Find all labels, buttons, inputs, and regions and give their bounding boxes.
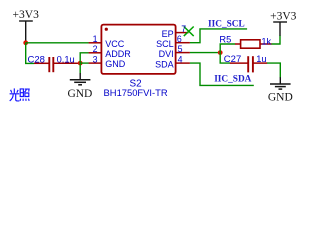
no-connect X on pin 7 bbox=[184, 27, 194, 37]
pin 2 stub bbox=[89, 52, 102, 54]
svg-text:1: 1 bbox=[93, 34, 98, 44]
wire GND net: node B to pin3 bbox=[80, 62, 89, 64]
wire VCC net: node A to pin1 bbox=[26, 42, 89, 44]
label 光照 (light) bbox=[10, 88, 30, 101]
pin 6 stub bbox=[176, 42, 190, 44]
svg-text:IIC_SDA: IIC_SDA bbox=[214, 75, 251, 85]
pin 5 stub bbox=[176, 52, 190, 54]
svg-text:C27: C27 bbox=[224, 54, 241, 65]
op-amp/IC U1 box BH1750 bbox=[101, 25, 175, 74]
svg-text:R5: R5 bbox=[219, 34, 231, 44]
ground GND right bbox=[268, 77, 293, 103]
pin 3 stub bbox=[89, 62, 102, 64]
svg-text:VCC: VCC bbox=[105, 39, 125, 49]
svg-text:IIC_SCL: IIC_SCL bbox=[208, 20, 245, 30]
resistor R5 bbox=[219, 34, 271, 48]
wire node B down to ground bbox=[79, 63, 81, 73]
wire ADDR net: node B up to pin2 bbox=[80, 53, 89, 63]
wire DVI: pin5 to node C bbox=[190, 52, 220, 54]
svg-text:1u: 1u bbox=[256, 54, 266, 64]
wire SCL: pin6 to net label bbox=[190, 29, 247, 43]
wire C27 to ground right bbox=[267, 63, 280, 78]
svg-text:BH1750FVI-TR: BH1750FVI-TR bbox=[104, 87, 168, 98]
capacitor C27 bbox=[224, 54, 267, 72]
power +3V3 right bbox=[270, 11, 297, 36]
svg-text:5: 5 bbox=[178, 44, 183, 54]
svg-text:SDA: SDA bbox=[155, 59, 174, 69]
pin 1 stub bbox=[89, 42, 102, 44]
node A junction dot bbox=[23, 40, 28, 45]
wire node C down to C27 bbox=[220, 53, 230, 64]
capacitor C28 bbox=[28, 55, 79, 73]
svg-text:GND: GND bbox=[105, 59, 126, 69]
svg-text:C28: C28 bbox=[28, 55, 45, 66]
svg-text:SCL: SCL bbox=[156, 39, 174, 49]
pin-1 indicator dot bbox=[105, 28, 108, 31]
wire VCC net: node A down to C28 bbox=[26, 43, 35, 64]
svg-text:EP: EP bbox=[162, 29, 174, 39]
pin 4 stub bbox=[176, 62, 190, 64]
wire SDA: pin4 to net label bbox=[190, 63, 254, 85]
svg-text:+3V3: +3V3 bbox=[270, 11, 297, 23]
wire R5 to +3V3 right bbox=[272, 35, 281, 44]
svg-text:4: 4 bbox=[178, 54, 183, 64]
svg-text:6: 6 bbox=[177, 34, 182, 44]
svg-text:GND: GND bbox=[67, 88, 92, 100]
wire node C up to R5 bbox=[220, 44, 235, 53]
svg-text:0.1u: 0.1u bbox=[57, 55, 75, 65]
power +3V3 left bbox=[13, 9, 40, 41]
node C junction dot bbox=[218, 50, 223, 55]
svg-text:ADDR: ADDR bbox=[105, 49, 131, 59]
svg-text:DVI: DVI bbox=[159, 49, 174, 59]
svg-text:1k: 1k bbox=[261, 36, 271, 46]
pin 7 stub bbox=[176, 32, 189, 34]
svg-text:+3V3: +3V3 bbox=[13, 9, 40, 21]
svg-text:7: 7 bbox=[181, 24, 186, 34]
ground GND left bbox=[67, 73, 92, 100]
svg-text:3: 3 bbox=[93, 54, 98, 64]
svg-text:GND: GND bbox=[268, 92, 293, 104]
node B junction dot bbox=[78, 61, 83, 66]
svg-text:2: 2 bbox=[93, 44, 98, 54]
